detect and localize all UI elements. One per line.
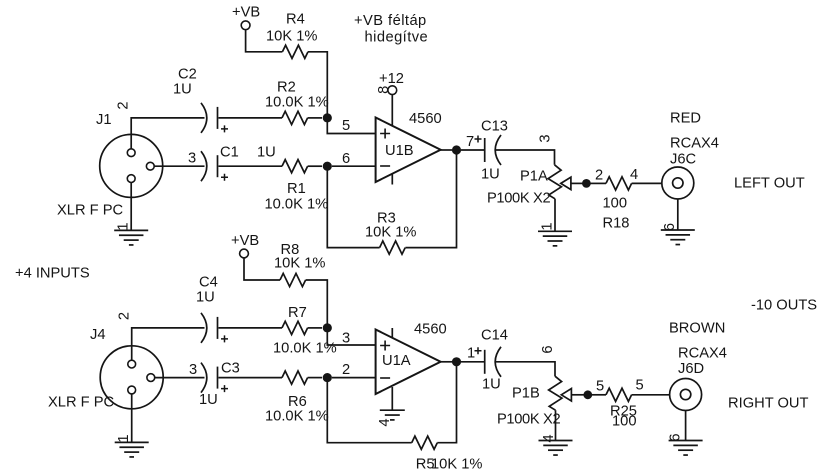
wire node to op-amp pin 3	[327, 332, 375, 345]
svg-text:-10 OUTS: -10 OUTS	[751, 298, 817, 314]
svg-text:100: 100	[612, 414, 637, 430]
ground symbol (J4)	[115, 442, 149, 457]
svg-text:100: 100	[603, 196, 628, 212]
svg-text:+VB féltáp: +VB féltáp	[354, 13, 427, 29]
svg-text:P100K X2: P100K X2	[487, 191, 550, 207]
wire P1A bottom to ground	[554, 199, 556, 232]
power terminal +12 (U1B pin 8)	[388, 86, 397, 95]
svg-text:6: 6	[540, 345, 556, 353]
svg-text:RED: RED	[670, 111, 701, 127]
wire feedback node to R3 (vertical)	[405, 154, 456, 248]
svg-text:P1A: P1A	[520, 169, 548, 185]
junction node R7/R8/pin3	[323, 323, 332, 332]
ground symbol (J6D)	[669, 441, 703, 456]
svg-text:+VB: +VB	[232, 5, 260, 21]
wire wiper node to R18	[591, 182, 607, 184]
svg-text:2: 2	[115, 101, 131, 109]
junction node R6/pin2/R5	[323, 373, 332, 382]
potentiometer P1B P100K X2	[497, 376, 571, 427]
svg-text:10K 1%: 10K 1%	[274, 256, 325, 272]
wire J4 pin 2 to C4	[132, 328, 205, 361]
wire U1B output to node	[441, 149, 452, 151]
wire U1A pin 4 to ground	[391, 387, 393, 410]
svg-text:4: 4	[630, 167, 638, 183]
svg-text:BROWN: BROWN	[669, 321, 725, 337]
resistor R5 10K 1%	[412, 436, 483, 472]
svg-text:XLR F PC: XLR F PC	[57, 203, 124, 219]
capacitor C14 1U	[475, 328, 508, 393]
wire R25 to J6D	[632, 394, 670, 396]
svg-text:3: 3	[342, 331, 350, 347]
capacitor C2 1U	[173, 67, 228, 133]
wire C1 to R1	[219, 165, 283, 167]
svg-text:1: 1	[467, 346, 475, 362]
svg-text:+VB: +VB	[231, 233, 259, 249]
wire J1 pin 1 to ground	[130, 183, 132, 231]
ground symbol (P1A)	[538, 231, 572, 246]
wire output node to C13	[461, 149, 484, 151]
resistor R25 100	[606, 388, 637, 429]
XLR connector J1	[57, 112, 163, 219]
capacitor C1 1U	[201, 145, 276, 182]
svg-text:C13: C13	[481, 119, 508, 135]
svg-text:7: 7	[466, 134, 474, 150]
stub U1B pin 4	[391, 174, 393, 185]
wire C4 to R7	[219, 327, 283, 329]
svg-text:5: 5	[636, 378, 644, 394]
wire R7 to node	[308, 327, 322, 329]
ground symbol (J1)	[114, 230, 148, 245]
power terminal +VB (bottom channel bias)	[231, 233, 259, 258]
ground symbol (J6C)	[661, 230, 695, 245]
capacitor C3 1U	[199, 361, 240, 409]
svg-text:U1A: U1A	[382, 353, 411, 369]
wire C13 to P1A top	[496, 150, 555, 165]
wire P1B wiper to node	[571, 394, 584, 396]
junction node P1B wiper	[583, 390, 592, 399]
svg-text:LEFT OUT: LEFT OUT	[734, 176, 805, 192]
potentiometer P1A P100K X2	[487, 165, 571, 207]
svg-text:3: 3	[189, 362, 197, 378]
svg-text:1U: 1U	[173, 82, 192, 98]
wire J4 pin 1 to ground	[131, 394, 133, 443]
junction node R1/pin6/R3	[323, 162, 332, 171]
svg-text:1: 1	[539, 222, 555, 230]
wire +12 to U1B	[391, 95, 393, 126]
resistor R3 10K 1%	[365, 211, 416, 255]
wire R6 to node	[308, 377, 322, 379]
svg-text:4: 4	[541, 434, 557, 442]
wire R8 to node R7/pin3	[306, 280, 328, 328]
wire J6D shield to ground	[685, 411, 687, 441]
RCA jack J6C RCAX4	[662, 111, 719, 200]
svg-text:RCAX4: RCAX4	[678, 346, 727, 362]
resistor R8 10K 1%	[274, 242, 325, 287]
wire R4 to node R2/pin5	[308, 52, 327, 118]
wire R2 to node	[308, 117, 322, 119]
wire J6C shield to ground	[677, 199, 679, 230]
svg-text:RCAX4: RCAX4	[670, 136, 719, 152]
stub U1A pin 8	[391, 328, 393, 338]
XLR connector J4	[48, 327, 163, 411]
svg-text:1: 1	[115, 222, 131, 230]
svg-text:1U: 1U	[482, 377, 501, 393]
svg-text:C4: C4	[199, 275, 218, 291]
svg-text:10.0K 1%: 10.0K 1%	[265, 409, 329, 425]
svg-text:hidegítve: hidegítve	[365, 30, 429, 46]
junction node P1A wiper	[582, 179, 591, 188]
svg-text:5: 5	[342, 118, 350, 134]
svg-text:10.0K 1%: 10.0K 1%	[265, 95, 329, 111]
svg-text:J4: J4	[90, 327, 106, 343]
svg-text:10K 1%: 10K 1%	[431, 457, 482, 473]
svg-text:3: 3	[188, 151, 196, 167]
wire C3 to R6	[219, 377, 283, 379]
capacitor C4 1U	[196, 275, 228, 343]
svg-text:C2: C2	[178, 67, 197, 83]
svg-text:RIGHT OUT: RIGHT OUT	[728, 396, 809, 412]
junction node output U1A	[452, 357, 461, 366]
svg-text:6: 6	[342, 151, 350, 167]
wire feedback node to R5 (vertical)	[437, 366, 456, 443]
svg-text:C14: C14	[481, 328, 508, 344]
svg-text:8: 8	[376, 86, 392, 94]
svg-text:C1: C1	[220, 145, 239, 161]
svg-text:J1: J1	[96, 112, 112, 128]
svg-text:2: 2	[116, 312, 132, 320]
svg-text:2: 2	[342, 362, 350, 378]
wire J1 pin 2 to C2	[131, 118, 204, 149]
wire J1 pin 3 to C1	[154, 165, 204, 167]
svg-text:10K 1%: 10K 1%	[365, 225, 416, 241]
svg-text:+4 INPUTS: +4 INPUTS	[15, 266, 90, 282]
svg-text:2: 2	[595, 168, 603, 184]
resistor R2 10.0K 1%	[265, 80, 329, 125]
svg-text:P1B: P1B	[512, 386, 540, 402]
power terminal +VB (top channel bias)	[232, 5, 260, 30]
svg-text:J6C: J6C	[670, 152, 697, 168]
wire wiper node to R25	[592, 394, 606, 396]
op-amp U1A 4560	[376, 322, 447, 395]
resistor R18 100	[603, 177, 632, 232]
resistor R1 10.0K 1%	[265, 160, 329, 213]
ground symbol (U1A pin 4)	[380, 410, 405, 420]
svg-text:1U: 1U	[199, 392, 218, 408]
wire node to op-amp pin 6	[332, 165, 375, 167]
svg-text:C3: C3	[221, 361, 240, 377]
svg-text:+12: +12	[379, 71, 404, 87]
wire C14 to P1B top	[496, 362, 555, 376]
wire P1B bottom to ground	[555, 410, 557, 440]
svg-text:P100K X2: P100K X2	[497, 412, 560, 428]
svg-text:R4: R4	[286, 12, 305, 28]
resistor R6 10.0K 1%	[265, 371, 329, 425]
wire node to op-amp pin 2	[332, 377, 375, 379]
wire +VB terminal to R8	[244, 258, 280, 280]
svg-text:10.0K 1%: 10.0K 1%	[265, 197, 329, 213]
resistor R4 10K 1%	[266, 12, 317, 59]
svg-text:1U: 1U	[196, 290, 215, 306]
wire R1 to node	[308, 165, 322, 167]
svg-text:5: 5	[596, 379, 604, 395]
op-amp U1B 4560	[376, 111, 442, 182]
svg-text:U1B: U1B	[385, 143, 414, 159]
wire R3 to inverting node	[327, 170, 379, 248]
capacitor C13 1U	[475, 119, 508, 183]
svg-text:10K 1%: 10K 1%	[266, 28, 317, 44]
wire P1A wiper to node	[571, 182, 583, 184]
svg-text:J6D: J6D	[678, 361, 704, 377]
RCA jack J6D RCAX4	[669, 321, 727, 411]
wire R18 to J6C	[632, 182, 662, 184]
wire C2 to R2	[219, 117, 283, 119]
svg-text:R1: R1	[287, 181, 306, 197]
wire U1A output to node	[441, 361, 452, 363]
svg-text:R18: R18	[603, 216, 630, 232]
wire node to op-amp pin 5	[327, 122, 375, 134]
svg-text:1U: 1U	[481, 167, 500, 183]
wire output node to C14	[461, 361, 484, 363]
ground symbol (P1B)	[539, 441, 573, 456]
svg-text:4560: 4560	[409, 111, 442, 127]
wire J4 pin 3 to C3	[155, 377, 205, 379]
svg-text:3: 3	[537, 134, 553, 142]
svg-text:1: 1	[116, 434, 132, 442]
wire +VB terminal to R4	[246, 30, 283, 52]
svg-text:4560: 4560	[414, 322, 447, 338]
junction node output U1B	[452, 145, 461, 154]
svg-text:XLR F PC: XLR F PC	[48, 395, 115, 411]
wire R5 to inverting node	[327, 382, 411, 443]
svg-text:R7: R7	[288, 305, 307, 321]
resistor R7 10.0K 1%	[273, 305, 337, 357]
junction node R2/R4/pin5	[323, 113, 332, 122]
svg-text:1U: 1U	[257, 145, 276, 161]
svg-text:R2: R2	[277, 80, 296, 96]
